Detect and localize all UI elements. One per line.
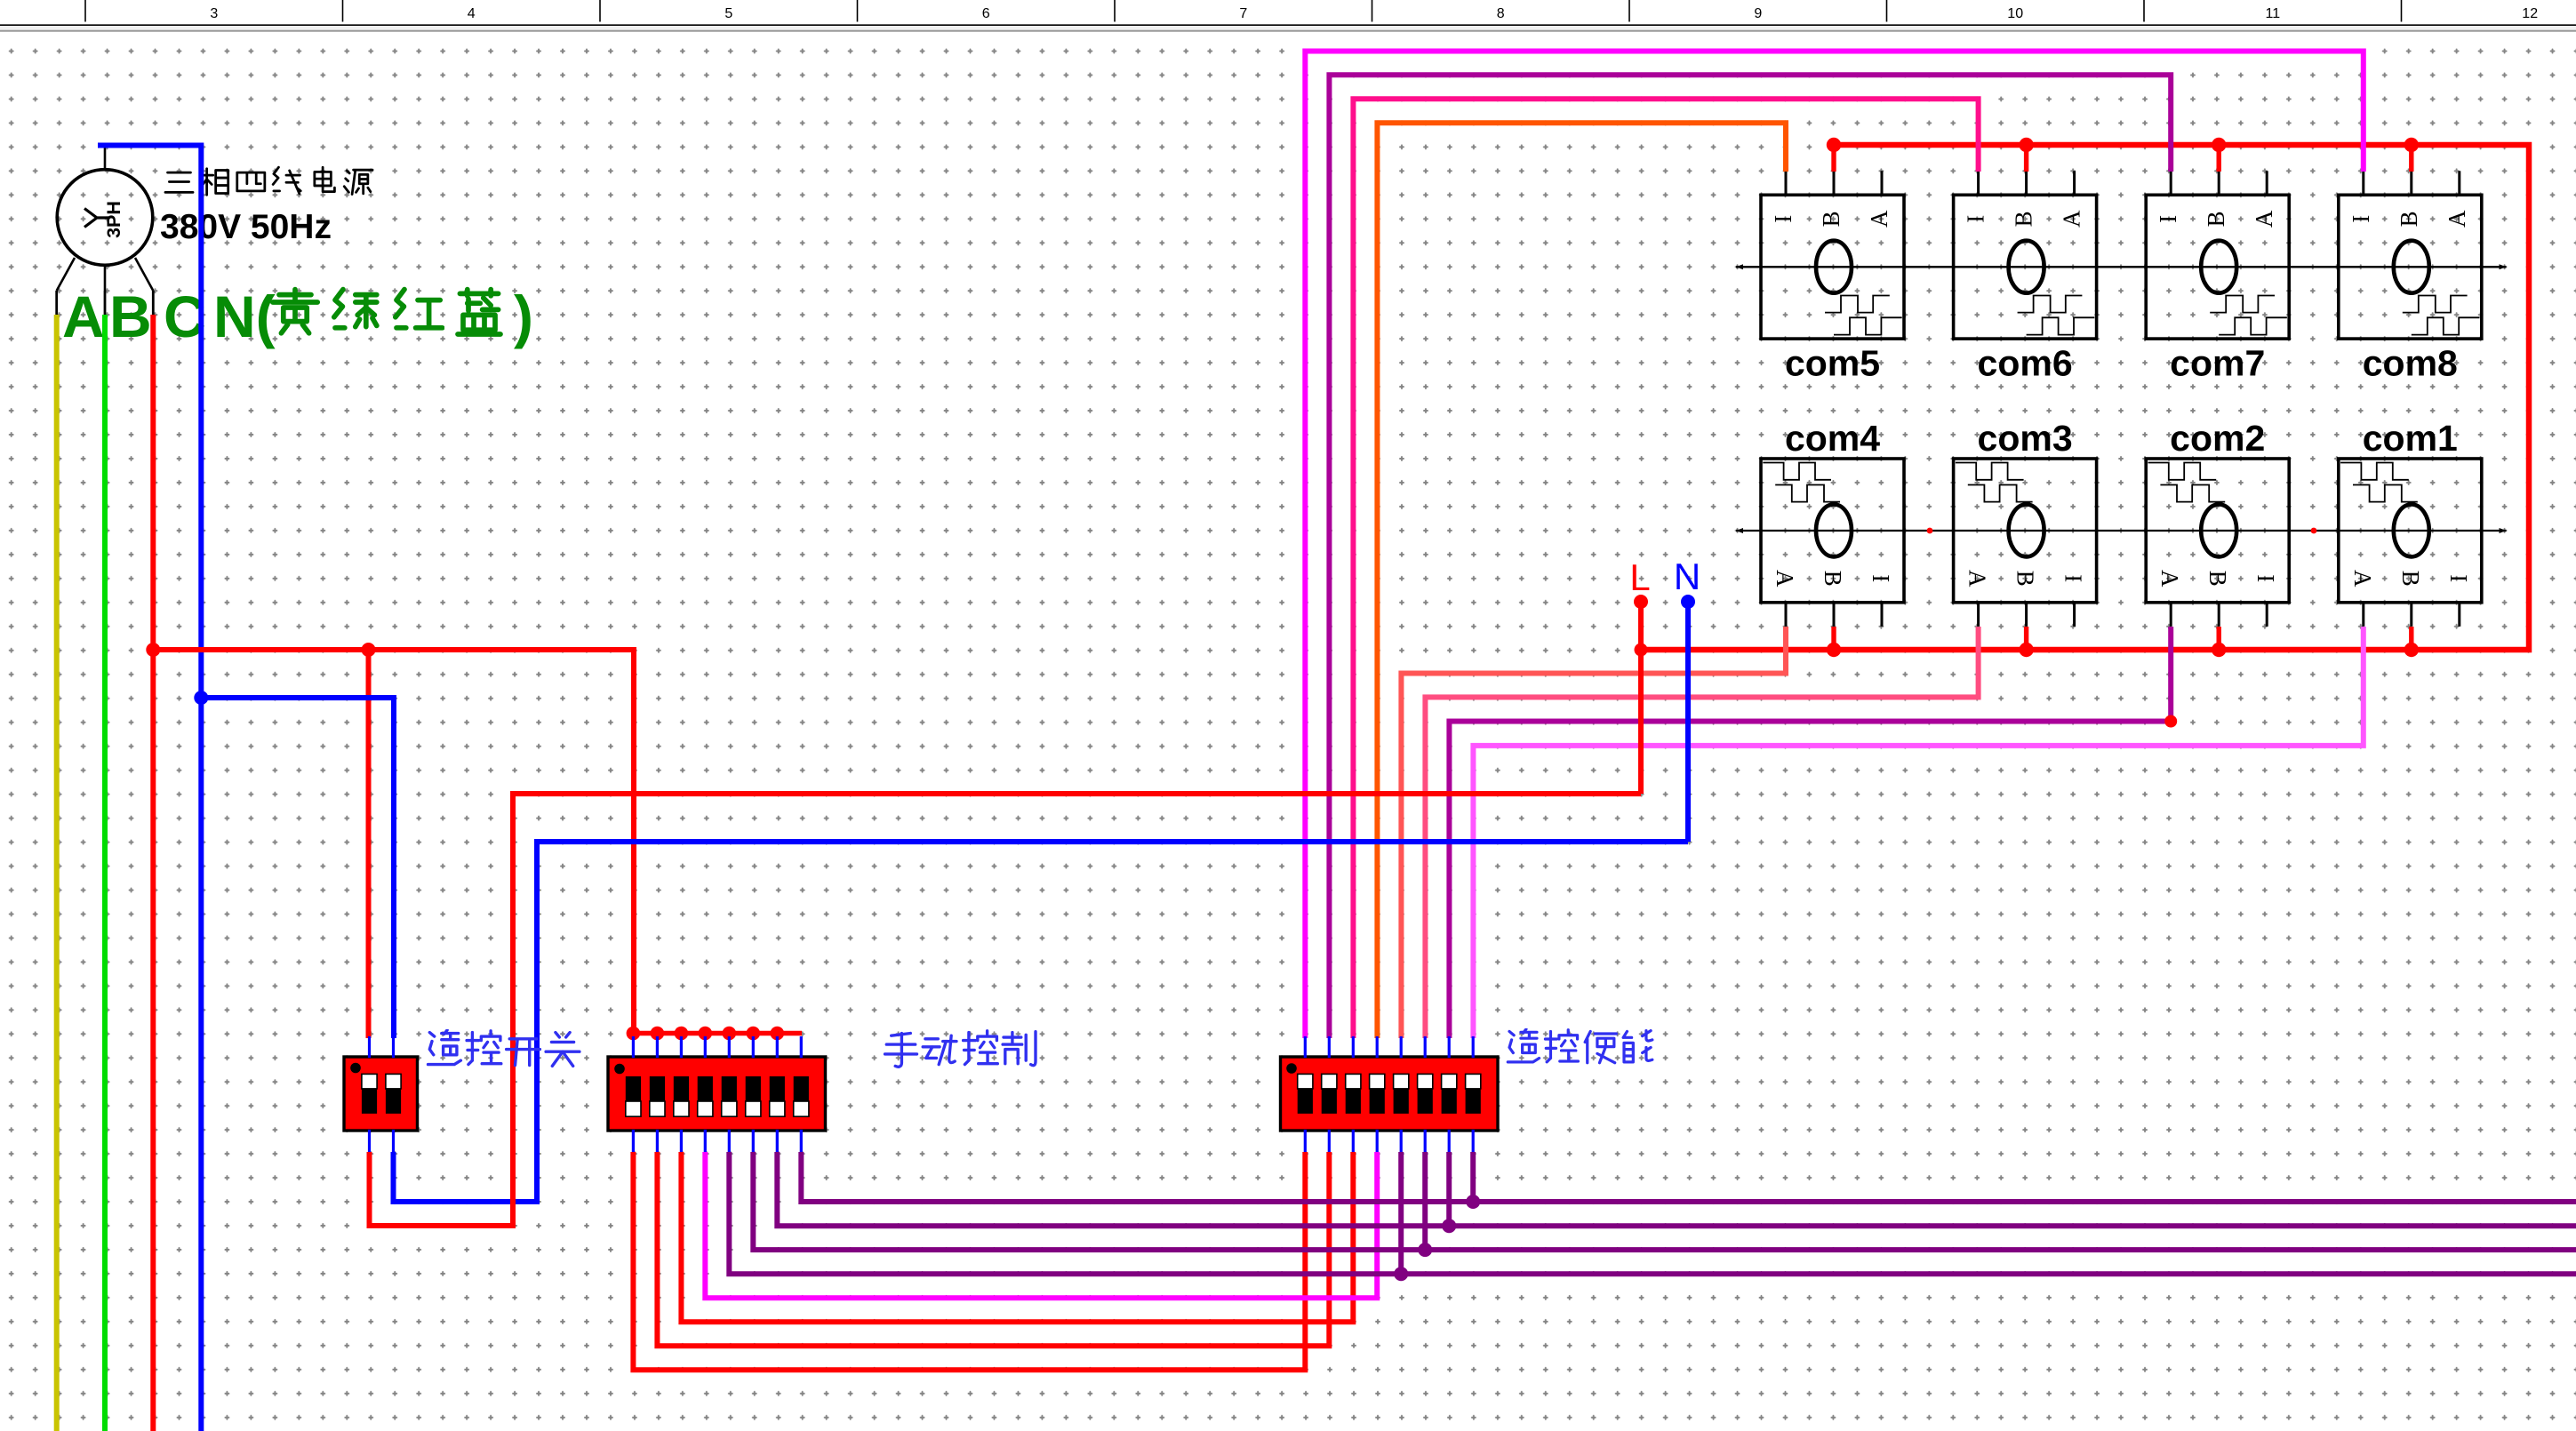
junction DIP2 bus pin 1 [627,1027,641,1041]
junction DIP3 purple rail 1 [1394,1267,1408,1281]
wire N (blue) from source top [98,146,201,1431]
junction on bottom bus [1827,643,1841,657]
pin stub com7.A [2266,171,2268,195]
wire DIP2.15 purple rail to right edge [777,1152,2576,1226]
svg-text:I: I [2348,215,2374,223]
junction on phase C [146,643,160,657]
wire phase C (red) [150,315,156,1431]
svg-text:11: 11 [2265,6,2280,21]
pin stub com2.A [2170,603,2172,627]
pin stub com5.A [1881,171,1884,195]
pin stub com8.B [2410,171,2412,195]
wire DIP1.4 to N (blue) [394,842,1689,1202]
svg-text:B: B [2396,211,2422,227]
wire stub bus to B pin (row1) [2024,145,2028,172]
svg-text:I: I [1770,215,1796,223]
wire DIP3.1 to com8.I (magenta) [1305,52,2364,1039]
wire DIP2.10 to DIP3.15 (red) [657,1152,1329,1346]
pin stub SW3 (遥控使能) bottom x=1549 [1376,1130,1379,1152]
pin stub com8.A [2458,171,2460,195]
module com5 [1761,171,1904,339]
pin stub com5.B [1833,171,1836,195]
pin stub SW3 (遥控使能) top x=1630 [1448,1036,1451,1058]
pin stub com8.I [2362,171,2364,195]
pin stub SW3 (遥控使能) top x=1522 [1352,1036,1355,1058]
svg-text:B: B [2011,211,2037,227]
wire stub bus to B pin (row2) [1831,627,1836,650]
node N terminal [1681,595,1695,609]
svg-text:com4: com4 [1785,418,1880,459]
svg-text:A: A [1866,210,1892,228]
pin stub com7.B [2218,171,2220,195]
svg-text:A: A [62,284,105,349]
svg-text:A: A [2444,210,2470,228]
svg-text:N(: N( [213,284,276,349]
svg-text:A: A [1964,570,1991,588]
svg-text:com3: com3 [1978,418,2073,459]
svg-text:B: B [1818,211,1844,227]
junction DIP2 bus pin 2 [651,1027,665,1041]
wire phase B (green) [102,315,108,1431]
svg-text:com2: com2 [2170,418,2265,459]
module com8 [2339,171,2482,339]
pin stub com4.B [1833,603,1836,627]
junction on N wire [194,691,208,705]
pin stub: phase C [152,291,155,316]
wire DIP3.11 down to purple rail [1422,1152,1428,1250]
wire DIP1.3 to L (red) [370,794,1642,1226]
junction DIP3 purple rail 2 [1418,1243,1432,1257]
pin stub com2.B [2218,603,2220,627]
svg-text:5: 5 [724,6,732,21]
svg-text:I: I [2060,574,2087,582]
wire N terminal down [1685,602,1691,842]
junction on top bus [2404,138,2419,152]
pin stub com6.B [2025,171,2028,195]
svg-text:L: L [1629,556,1650,598]
wire DIP2.16 purple rail to right edge [801,1152,2576,1202]
pin stub SW3 (遥控使能) top x=1549 [1376,1036,1379,1058]
pin stub SW3 (遥控使能) top x=1468 [1304,1036,1307,1058]
pin stub com3.A [1977,603,1980,627]
pin stub: source phase B diagonal [104,266,107,292]
svg-text:A: A [1772,570,1798,588]
label 手动控制 [885,1031,1036,1067]
svg-text:A: A [2251,210,2277,228]
junction on DIP3.7 wire corner [2164,715,2177,728]
wire N branch to DIP1 [201,698,394,1038]
junction DIP2 bus pin 5 [723,1027,737,1041]
svg-text:I: I [1963,215,1989,223]
pin stub com1.I [2458,603,2460,627]
wire phase A (yellow) [54,315,60,1431]
wire DIP3.5 to com4.A (salmon) [1401,627,1786,1038]
wire stub bus to B pin (row1) [2216,145,2220,172]
junction DIP3 purple rail 3 [1442,1219,1456,1233]
module com7 [2146,171,2289,339]
wire DIP3.9 down to purple rail [1470,1152,1476,1202]
wire branch down to DIP1 pin 1 [366,650,372,1038]
svg-text:I: I [2445,574,2472,582]
pin stub SW2 (手动控制) bottom x=793 [704,1130,707,1152]
pin stub SW2 (手动控制) top x=874 [776,1036,779,1058]
pin stub SW3 (遥控使能) top x=1495 [1328,1036,1331,1058]
junction DIP2 bus pin 6 [747,1027,761,1041]
pin stub SW2 (手动控制) top x=739 [656,1036,659,1058]
junction on bottom bus [2019,643,2033,657]
junction: branch to DIP1 [362,643,376,657]
wire DIP2.9 to DIP3.16 (red) [633,1152,1305,1370]
wire DIP3.7 to com2.A (purple) [1449,627,2171,1038]
svg-text:3PH: 3PH [103,201,124,238]
pin stub SW3 (遥控使能) bottom x=1495 [1328,1130,1331,1152]
svg-text:A: A [2349,570,2376,588]
svg-text:4: 4 [468,6,476,21]
node L terminal [1634,595,1648,609]
wire phase C branch to DIP1/DIP2 [153,650,634,1032]
pin stub SW1 (遥控开关) bottom x=442 [392,1130,395,1152]
label 三相四线电源 [165,167,372,195]
svg-text:B: B [2397,571,2424,587]
svg-text:3: 3 [210,6,218,21]
svg-text:I: I [2155,215,2181,223]
wire stub bus to B pin (row1) [1831,145,1836,172]
pin stub com6.A [2073,171,2076,195]
svg-text:I: I [1868,574,1894,582]
pin stub SW2 (手动控制) bottom x=766 [680,1130,683,1152]
wire DIP2.14 purple rail to right edge [753,1152,2576,1250]
svg-text:12: 12 [2522,6,2538,21]
svg-text:com1: com1 [2363,418,2458,459]
wire DIP3.4 to com5.I (orange) [1377,123,1786,1038]
module com4 [1761,459,1904,627]
svg-text:B: B [2203,211,2229,227]
pin stub com1.B [2410,603,2412,627]
DIP switch SW1 (遥控开关) [344,1036,418,1152]
junction on bottom bus [2212,643,2226,657]
pin stub SW3 (遥控使能) top x=1657 [1472,1036,1475,1058]
svg-text:): ) [514,284,533,349]
module com1 [2339,459,2482,627]
pin stub SW2 (手动控制) bottom x=874 [776,1130,779,1152]
DIP switch SW2 (手动控制) [608,1036,826,1152]
wire DIP3.12 down to purple rail [1398,1152,1404,1274]
pin stub com4.I [1881,603,1884,627]
power source PS1 (3PH) [57,170,153,266]
svg-text:A: A [2059,210,2085,228]
pin stub SW2 (手动控制) top x=847 [752,1036,755,1058]
pin stub SW3 (遥控使能) bottom x=1657 [1472,1130,1475,1152]
svg-text:com5: com5 [1785,343,1880,384]
module com6 [1954,171,2097,339]
svg-text:com7: com7 [2170,343,2265,384]
svg-text:380V 50Hz: 380V 50Hz [160,208,332,246]
wire DIP3.2 to com7.I (dark magenta) [1329,75,2171,1038]
pin stub SW2 (手动控制) top x=820 [728,1036,731,1058]
pin stub SW2 (手动控制) top x=793 [704,1036,707,1058]
pin stub SW1 (遥控开关) top x=416 [368,1036,371,1058]
pin stub com1.A [2362,603,2364,627]
junction L wire with bottom bus [1635,644,1648,657]
svg-text:com6: com6 [1978,343,2073,384]
pin stub SW1 (遥控开关) bottom x=416 [368,1130,371,1152]
module com3 [1954,459,2097,627]
pin stub com3.B [2025,603,2028,627]
pin stub com7.I [2170,171,2172,195]
wire DIP3.6 to com3.A (hot pink) [1425,627,1978,1038]
pin stub SW2 (手动控制) top x=766 [680,1036,683,1058]
pin stub SW3 (遥控使能) bottom x=1468 [1304,1130,1307,1152]
pin stub SW2 (手动控制) top x=712 [632,1036,635,1058]
svg-text:10: 10 [2007,6,2023,21]
pin stub SW2 (手动控制) bottom x=739 [656,1130,659,1152]
pin stub SW3 (遥控使能) bottom x=1630 [1448,1130,1451,1152]
wire stub bus to B pin (row2) [2216,627,2220,650]
pin stub com2.I [2266,603,2268,627]
node dot on row 2 line (left) [1927,528,1933,534]
node line row 2 [1736,528,2507,533]
pin stub SW3 (遥控使能) bottom x=1603 [1424,1130,1427,1152]
wire DIP2 top bus (red) [633,1031,802,1036]
svg-text:N: N [1674,556,1700,597]
pin stub SW2 (手动控制) bottom x=712 [632,1130,635,1152]
wire DIP3.10 down to purple rail [1446,1152,1452,1226]
junction on top bus [2019,138,2033,152]
svg-text:8: 8 [1497,6,1505,21]
pin stub com6.I [1977,171,1980,195]
wire stub bus to B pin (row2) [2409,627,2413,650]
svg-text:A: A [2156,570,2183,588]
wire stub bus to B pin (row2) [2024,627,2028,650]
pin stub: source phase A diagonal [57,258,75,291]
pin stub: source phase C diagonal [135,258,153,291]
junction DIP2 bus pin 4 [699,1027,713,1041]
svg-text:B: B [1820,571,1846,587]
junction on bottom bus [2404,643,2419,657]
junction on top bus [2212,138,2226,152]
svg-text:I: I [2252,574,2279,582]
pin stub SW3 (遥控使能) bottom x=1522 [1352,1130,1355,1152]
wire stub bus to B pin (row1) [2409,145,2413,172]
label 遥控使能 [1508,1029,1652,1063]
junction DIP2 bus pin 3 [675,1027,689,1041]
pin stub com3.I [2073,603,2076,627]
wire DIP3.8 to com1.A (orchid) [1473,627,2363,1038]
pin stub com5.I [1785,171,1788,195]
node dot on row 2 line (right) [2311,528,2317,534]
junction DIP3 purple rail 4 [1466,1195,1480,1209]
pin stub SW3 (遥控使能) top x=1576 [1400,1036,1403,1058]
svg-text:6: 6 [982,6,990,21]
svg-text:B: B [109,284,152,349]
svg-text:9: 9 [1754,6,1762,21]
pin stub SW2 (手动控制) bottom x=820 [728,1130,731,1152]
pin stub: phase A [55,291,58,316]
DIP switch SW3 (遥控使能) [1281,1036,1499,1152]
pin stub com4.A [1785,603,1788,627]
label 遥控开关 [428,1030,580,1067]
svg-text:com8: com8 [2363,343,2458,384]
pin stub: phase B [104,291,107,316]
pin stub SW1 (遥控开关) top x=442 [392,1036,395,1058]
pin stub: source top [104,146,107,171]
pin stub SW2 (手动控制) bottom x=847 [752,1130,755,1152]
node line row 1 [1736,264,2507,269]
wire DIP2.12 to DIP3.13 (magenta) [705,1152,1377,1298]
wire net L bus (top + right + bottom around modules) [1641,145,2529,650]
wire DIP2.13 purple rail to right edge [729,1152,2576,1274]
module com2 [2146,459,2289,627]
pin stub SW2 (手动控制) top x=901 [800,1036,803,1058]
pin stub SW3 (遥控使能) bottom x=1576 [1400,1130,1403,1152]
svg-text:B: B [2012,571,2039,587]
wire DIP3.3 to com6.I (deep pink) [1353,99,1978,1038]
svg-text:B: B [2204,571,2231,587]
label A B C N(黄绿红蓝) [62,284,533,349]
junction on top bus [1827,138,1841,152]
wire DIP2.11 to DIP3.14 (red) [681,1152,1353,1322]
pin stub SW3 (遥控使能) top x=1603 [1424,1036,1427,1058]
junction DIP2 bus pin 7 [771,1027,785,1041]
svg-text:7: 7 [1239,6,1247,21]
wire L terminal down [1638,602,1644,794]
pin stub SW2 (手动控制) bottom x=901 [800,1130,803,1152]
